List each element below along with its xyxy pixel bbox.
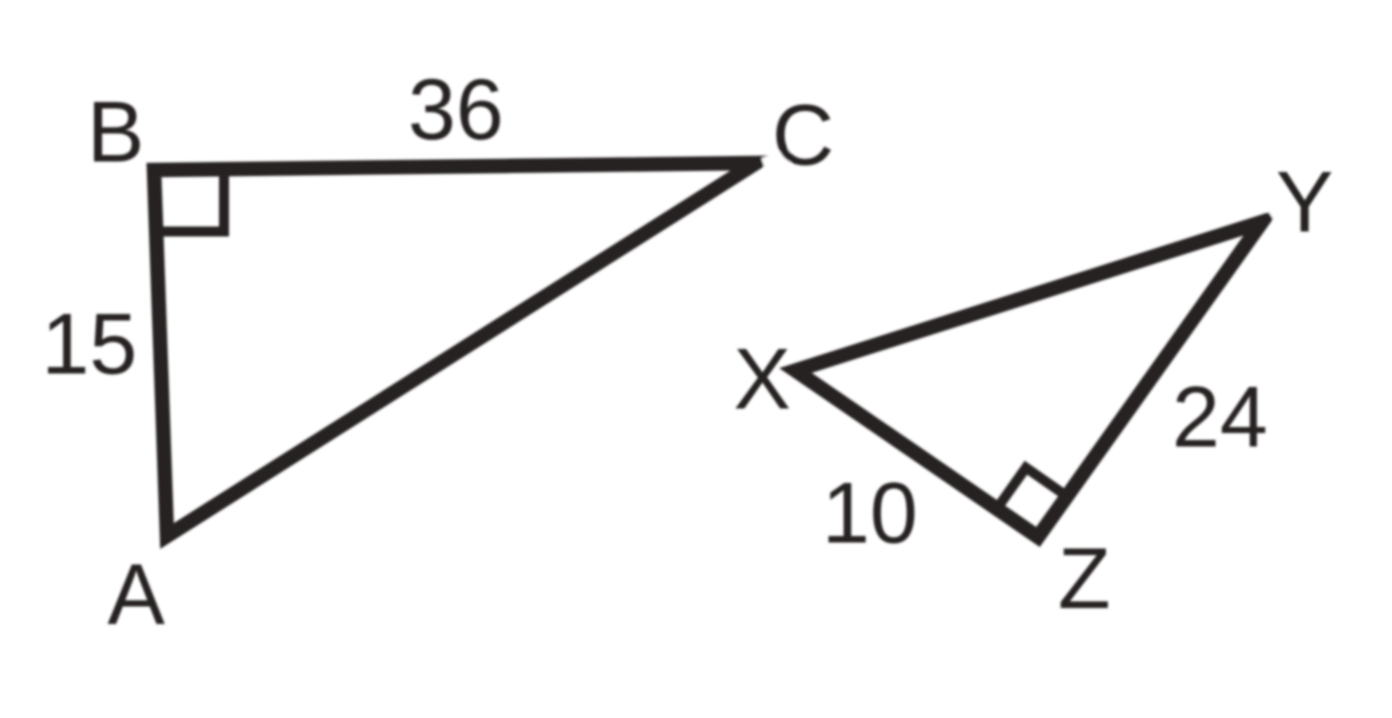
svg-text:10: 10 [822,466,918,562]
miter clip at C [761,147,791,176]
svg-text:Y: Y [1276,155,1333,251]
svg-text:24: 24 [1172,370,1268,466]
svg-text:X: X [734,332,791,428]
svg-text:C: C [772,88,834,184]
svg-text:B: B [87,85,144,181]
right angle marker at Z [997,468,1067,509]
right angle marker at B [150,166,224,232]
triangle ABC [154,163,756,536]
svg-text:36: 36 [408,62,504,158]
miter clip at Y [1266,195,1287,221]
svg-text:A: A [108,547,166,643]
svg-text:15: 15 [42,297,138,393]
triangle XYZ [796,222,1263,537]
svg-text:Z: Z [1058,531,1111,627]
